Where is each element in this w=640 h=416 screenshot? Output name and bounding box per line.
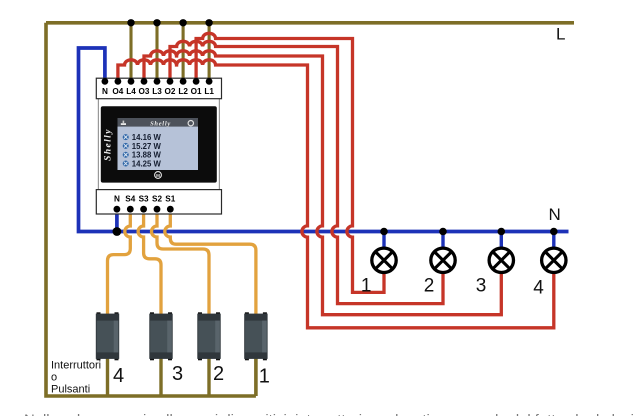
junction dot lamp 4 [550, 228, 558, 236]
wire S2 to switch 2 [152, 209, 210, 317]
svg-text:1: 1 [361, 276, 372, 297]
svg-text:L: L [556, 25, 565, 44]
svg-text:O3: O3 [139, 87, 150, 96]
wire O2 to lamp 2 [170, 41, 443, 303]
wire N stub lamp 2 [441, 232, 444, 249]
svg-text:14.16 W: 14.16 W [132, 133, 162, 142]
svg-text:S3: S3 [139, 195, 149, 204]
wire stubs into top box [103, 79, 107, 82]
label interruttori o pulsanti [51, 359, 101, 395]
wire switch 2 return [207, 356, 210, 396]
svg-text:4: 4 [533, 278, 544, 299]
svg-text:M: M [156, 173, 160, 178]
terminal O4 screw [115, 78, 122, 85]
svg-text:O2: O2 [165, 87, 176, 96]
device M button [155, 172, 162, 179]
svg-text:Nello schema puoi collegare i: Nello schema puoi collegare i dispositiv… [24, 412, 634, 416]
junction dot L3 [153, 19, 160, 26]
junction dot L2 [179, 19, 186, 26]
svg-text:o: o [51, 371, 57, 383]
svg-text:2: 2 [424, 276, 435, 297]
wire switch 1 return [254, 356, 258, 396]
svg-text:N: N [102, 87, 108, 96]
svg-text:Pulsanti: Pulsanti [51, 383, 90, 395]
svg-text:O1: O1 [191, 87, 202, 96]
junction dot lamp 3 [498, 228, 506, 236]
display header left icon [121, 123, 126, 125]
wire switch 3 return [159, 356, 162, 396]
junction node N-device [113, 227, 122, 236]
terminal O2 screw [167, 78, 174, 85]
device bottom terminal box [96, 190, 221, 214]
svg-text:N: N [114, 195, 120, 204]
junction dot lamp 2 [439, 228, 447, 236]
junction dot L1 [205, 19, 212, 26]
terminal O1 screw [193, 78, 200, 85]
svg-text:14.25 W: 14.25 W [132, 159, 162, 168]
wire L4 feed [129, 23, 132, 82]
svg-text:2: 2 [213, 363, 224, 385]
svg-text:L4: L4 [126, 87, 136, 96]
terminal L2 screw [180, 78, 187, 85]
wire L1 feed [208, 23, 211, 82]
wire N from terminal around left [79, 48, 569, 232]
svg-text:O4: O4 [112, 87, 123, 96]
switch 2 [197, 312, 220, 360]
wire L bus top [46, 21, 574, 25]
switch 4 [96, 312, 119, 360]
svg-text:S4: S4 [125, 195, 135, 204]
svg-text:13.88 W: 13.88 W [132, 151, 162, 160]
svg-text:S1: S1 [165, 195, 175, 204]
terminal L3 screw [154, 78, 161, 85]
device top terminal box [96, 78, 221, 99]
svg-text:S2: S2 [152, 195, 162, 204]
wire O1 to lamp 1 [196, 33, 384, 292]
svg-text:Shelly: Shelly [104, 128, 114, 161]
wire N stub lamp 3 [500, 232, 503, 249]
display row 3 icon [123, 152, 129, 158]
lamp 2 [431, 248, 455, 272]
svg-text:L3: L3 [152, 87, 162, 96]
device display [118, 118, 199, 170]
svg-text:Interruttori: Interruttori [51, 359, 101, 371]
wire L left vertical [46, 23, 256, 396]
terminal N screw [102, 78, 109, 85]
device body [101, 106, 217, 182]
terminal N bottom screw [114, 206, 121, 213]
wire S1 to switch 1 [165, 209, 256, 317]
lamp 1 [372, 248, 396, 272]
svg-text:4: 4 [113, 365, 124, 387]
wire O3 to lamp 3 [144, 51, 501, 315]
display row 1 icon [123, 134, 129, 140]
svg-text:Shelly: Shelly [150, 120, 171, 127]
switch 3 [149, 312, 172, 360]
terminal S4 bottom screw [127, 206, 134, 213]
wire S4 to switch 4 [108, 209, 131, 317]
svg-text:15.27 W: 15.27 W [132, 142, 162, 151]
wire N device bottom stub [115, 209, 119, 232]
wire L2 feed [182, 23, 185, 82]
terminal S2 bottom screw [154, 206, 161, 213]
terminal O3 screw [141, 78, 148, 85]
svg-text:3: 3 [172, 363, 183, 385]
svg-text:L1: L1 [204, 87, 214, 96]
wire O4 to lamp 4 [118, 60, 554, 328]
display header [118, 118, 199, 127]
junction dot lamp 1 [380, 228, 388, 236]
wire N stub lamp 1 [382, 232, 385, 249]
display row 2 icon [123, 143, 129, 149]
device shelly pro 4pm side rails [98, 99, 219, 190]
display header refresh icon [188, 121, 193, 126]
terminal S1 bottom screw [167, 206, 174, 213]
display row 4 icon [123, 161, 129, 167]
svg-text:N: N [549, 205, 561, 224]
terminal L4 screw [128, 78, 135, 85]
junction dot L4 [127, 19, 134, 26]
wire N stub lamp 4 [552, 232, 555, 249]
lamp 4 [542, 248, 566, 272]
terminal L1 screw [206, 78, 213, 85]
lamp 3 [489, 248, 513, 272]
svg-text:L2: L2 [178, 87, 188, 96]
svg-text:1: 1 [259, 366, 270, 388]
svg-text:3: 3 [476, 276, 487, 297]
switch 1 [244, 312, 267, 360]
wire S3 to switch 3 [138, 209, 161, 317]
terminal S3 bottom screw [140, 206, 147, 213]
wire L3 feed [155, 23, 158, 82]
wire switch 4 return [106, 356, 109, 396]
